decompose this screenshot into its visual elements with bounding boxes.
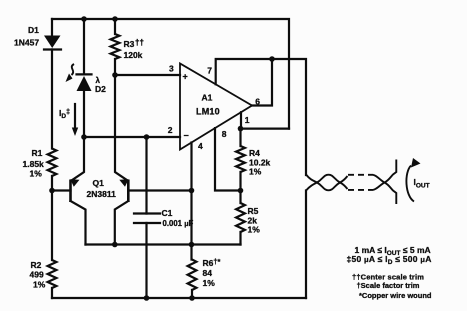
svg-text:2N3811: 2N3811 <box>87 189 117 199</box>
svg-text:4: 4 <box>198 141 203 151</box>
svg-text:†Scale factor trim: †Scale factor trim <box>357 281 420 290</box>
svg-text:0.001 μF: 0.001 μF <box>163 219 194 228</box>
svg-text:R3: R3 <box>124 39 135 49</box>
svg-text:8: 8 <box>222 129 227 139</box>
svg-text:LM10: LM10 <box>196 107 220 117</box>
svg-text:R4: R4 <box>249 148 260 158</box>
svg-text:+: + <box>183 72 188 82</box>
svg-text:−: − <box>184 131 189 141</box>
svg-text:84: 84 <box>203 268 213 278</box>
svg-text:6: 6 <box>255 97 260 107</box>
svg-text:1%: 1% <box>203 278 216 288</box>
svg-text:1%: 1% <box>249 167 262 177</box>
svg-text:Q1: Q1 <box>93 178 105 188</box>
svg-text:††: †† <box>135 38 144 47</box>
svg-text:1%: 1% <box>33 280 46 290</box>
svg-text:*Copper wire wound: *Copper wire wound <box>359 291 432 300</box>
svg-text:1.85k: 1.85k <box>23 159 45 169</box>
svg-text:R2: R2 <box>31 260 42 270</box>
svg-text:R1: R1 <box>32 148 43 158</box>
svg-text:7: 7 <box>207 66 212 76</box>
svg-text:3: 3 <box>169 64 174 74</box>
svg-text:1: 1 <box>245 115 250 125</box>
svg-text:1%: 1% <box>248 225 261 235</box>
svg-text:120k: 120k <box>124 50 143 60</box>
svg-text:1%: 1% <box>30 169 43 179</box>
svg-text:C1: C1 <box>162 208 173 218</box>
svg-text:A1: A1 <box>202 93 213 103</box>
svg-text:499: 499 <box>30 270 44 280</box>
svg-text:R5: R5 <box>248 206 259 216</box>
svg-text:2: 2 <box>168 125 173 135</box>
svg-text:D1: D1 <box>28 25 39 35</box>
svg-text:1N457: 1N457 <box>14 38 39 48</box>
svg-text:D2: D2 <box>95 84 106 94</box>
